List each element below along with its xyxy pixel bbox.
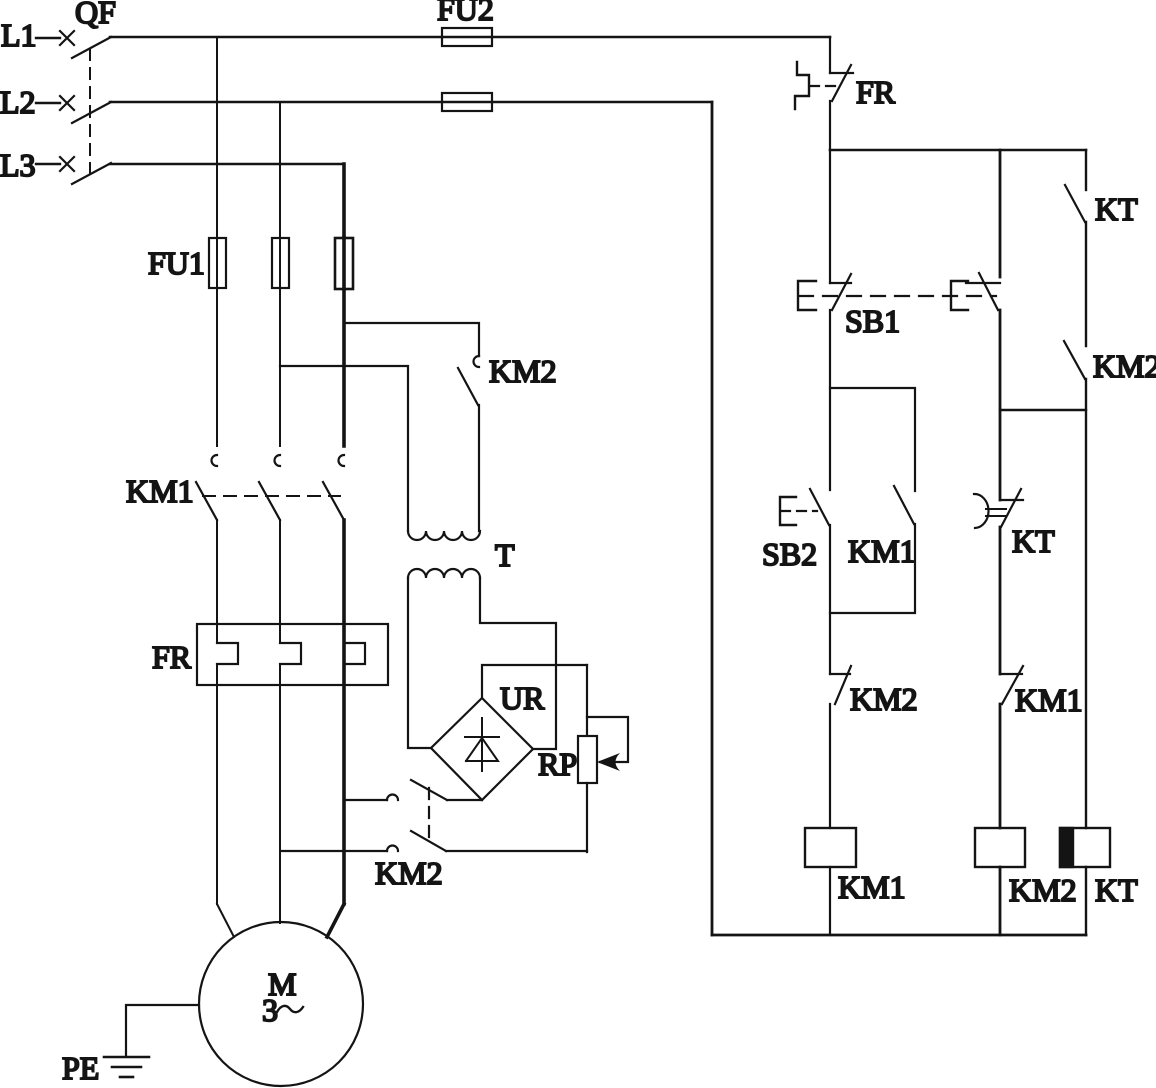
- wire phase V drop: [279, 102, 281, 446]
- wire left branch lower: [829, 525, 831, 674]
- svg-text:KM1: KM1: [126, 473, 194, 509]
- fuse FU1 label: [148, 245, 205, 281]
- svg-text:T: T: [495, 537, 515, 573]
- fuse FU1 pole 3: [335, 238, 353, 289]
- wire KM2 coil to bus: [999, 867, 1002, 935]
- fuse FU1 pole 2: [272, 238, 289, 288]
- wire secondary left lead: [408, 578, 431, 748]
- svg-text:KM2: KM2: [489, 353, 557, 389]
- coil KM2 label: [1009, 872, 1077, 908]
- svg-text:KM1: KM1: [1015, 682, 1083, 718]
- svg-text:FR: FR: [856, 74, 896, 110]
- thermal relay FR heater 3: [344, 643, 365, 664]
- node L1: [1, 17, 37, 53]
- wire middle branch upper: [999, 150, 1002, 277]
- rectifier UR bridge: [431, 698, 533, 800]
- wire phase W mid: [342, 520, 346, 904]
- transformer T primary winding: [408, 531, 480, 540]
- pushbutton SB1 actuator b: [951, 281, 968, 310]
- ground PE label: [62, 1050, 99, 1086]
- thermal relay FR control contact: [830, 65, 853, 101]
- wire KM2 to transformer: [478, 405, 480, 531]
- wire phase U mid: [216, 520, 218, 643]
- breaker QF pole 1 blade: [72, 37, 111, 58]
- svg-text:SB1: SB1: [845, 303, 900, 339]
- breaker QF label: [75, 0, 116, 30]
- svg-text:KM1: KM1: [838, 869, 906, 905]
- fuse FU2 pole 2: [442, 93, 492, 111]
- wire to KM1 coil: [829, 704, 831, 828]
- transformer T label: [495, 537, 515, 573]
- wire branch to KM2 power contact: [344, 323, 479, 356]
- svg-text:SB2: SB2: [762, 536, 817, 572]
- ground symbol: [104, 1057, 149, 1077]
- svg-text:KM2: KM2: [1093, 348, 1156, 384]
- wire right branch upper: [1085, 150, 1087, 190]
- svg-text:UR: UR: [500, 680, 545, 716]
- motor M circle: [199, 922, 363, 1086]
- contactor KM2 brake link: [428, 788, 430, 843]
- fuse FU2 label: [437, 0, 494, 27]
- wire phase U lower: [217, 664, 234, 937]
- wire phase U drop: [216, 37, 218, 446]
- wire middle branch lower: [999, 527, 1002, 674]
- wire to KM2 coil: [999, 704, 1002, 828]
- pushbutton SB1 actuator a: [798, 281, 816, 310]
- svg-text:KT: KT: [1095, 191, 1138, 227]
- motor 3-phase label: [262, 992, 303, 1028]
- contactor KM2 power label: [489, 353, 557, 389]
- timer KT contact label: [1095, 191, 1138, 227]
- wire phase W motor lead: [327, 904, 344, 937]
- breaker QF pole 3 blade: [72, 163, 111, 184]
- contactor KM1 main label: [126, 473, 194, 509]
- svg-text:FR: FR: [152, 639, 192, 675]
- motor M label: [268, 966, 296, 1002]
- coil KT label: [1095, 872, 1138, 908]
- contactor KM2 aux label: [1093, 348, 1156, 384]
- thermal relay FR control label: [856, 74, 896, 110]
- pushbutton SB1 contact a: [830, 274, 851, 310]
- wire phase V mid: [279, 520, 281, 643]
- potentiometer RP body: [578, 665, 597, 852]
- thermal relay FR heater 2: [280, 643, 301, 664]
- wire L2 bus: [110, 101, 712, 104]
- wire L2 stub: [36, 102, 60, 104]
- contactor KM2 power contact: [458, 356, 479, 405]
- rectifier UR label: [500, 680, 545, 716]
- svg-text:L1: L1: [1, 17, 37, 53]
- coil KT: [1060, 828, 1110, 867]
- timer KT contact: [1065, 185, 1085, 222]
- rectifier UR diode: [465, 718, 499, 771]
- contactor KM1 interlock contact: [1000, 666, 1023, 704]
- coil KM1 label: [838, 869, 906, 905]
- pushbutton SB1 link: [799, 295, 996, 297]
- wire control bottom bus: [712, 934, 1086, 937]
- wire middle branch mid: [999, 310, 1002, 500]
- svg-text:FU1: FU1: [148, 245, 205, 281]
- wire bridge top lead: [482, 665, 587, 698]
- wire PE lead: [126, 1005, 199, 1056]
- wire junction bar: [1000, 409, 1086, 411]
- contactor KM1 aux contact: [894, 486, 914, 524]
- wire L3 bus: [110, 163, 344, 166]
- wire left branch middle: [829, 310, 831, 490]
- wire L1 bus: [110, 36, 830, 39]
- wire left branch upper: [829, 150, 831, 283]
- pushbutton SB1 contact b: [966, 273, 1000, 310]
- wire L3 stub: [36, 163, 60, 165]
- svg-text:L3: L3: [0, 147, 36, 183]
- contactor KM2 interlock label: [850, 681, 918, 717]
- wire right branch mid: [1085, 222, 1087, 346]
- contactor KM1 main pole 2: [259, 455, 280, 520]
- svg-text:L2: L2: [0, 84, 36, 120]
- wire KM1 coil to bus: [829, 867, 831, 935]
- contactor KM2 brake contact lower: [281, 831, 587, 851]
- svg-text:KM2: KM2: [850, 681, 918, 717]
- pushbutton SB2 actuator: [780, 497, 817, 525]
- contactor KM1 main pole 1: [196, 455, 217, 520]
- potentiometer RP label: [538, 746, 577, 782]
- breaker QF link: [89, 49, 91, 176]
- wire phase W drop: [342, 164, 346, 446]
- terminal cross L2: [60, 96, 74, 110]
- contactor KM1 main pole 3: [323, 455, 344, 520]
- terminal cross L3: [60, 157, 74, 171]
- thermal relay FR label: [152, 639, 192, 675]
- node L3: [0, 147, 36, 183]
- pushbutton SB2 label: [762, 536, 817, 572]
- pushbutton SB2 contact: [810, 489, 829, 525]
- svg-text:RP: RP: [538, 746, 577, 782]
- wire L1 corner drop: [829, 37, 831, 73]
- svg-text:KT: KT: [1012, 523, 1055, 559]
- fuse FU2 pole 1: [442, 28, 492, 46]
- wire secondary right lead: [480, 578, 556, 749]
- contactor KM2 brake label: [375, 855, 443, 891]
- contactor KM2 interlock contact: [830, 666, 851, 704]
- contactor KM1 interlock label: [1015, 682, 1083, 718]
- svg-text:KM1: KM1: [848, 533, 916, 569]
- wire KT coil to bus: [1085, 867, 1087, 935]
- thermal relay FR heater 1: [217, 643, 238, 664]
- wire control rail upper: [829, 101, 831, 150]
- transformer T secondary winding: [408, 569, 480, 578]
- svg-text:FU2: FU2: [437, 0, 494, 27]
- contactor KM2 brake contact upper: [344, 780, 482, 800]
- contactor KM1 aux label: [848, 533, 916, 569]
- node L2: [0, 84, 36, 120]
- wire control top bus: [830, 149, 1086, 152]
- contactor KM2 aux contact: [1064, 341, 1085, 379]
- wire phase V lower: [279, 664, 281, 923]
- potentiometer RP wiper: [587, 717, 628, 771]
- pushbutton SB1 label: [845, 303, 900, 339]
- svg-text:KM2: KM2: [375, 855, 443, 891]
- wire KM1 aux branch bottom: [830, 524, 915, 613]
- coil KM1: [805, 828, 856, 867]
- wire branch to transformer primary: [280, 366, 408, 531]
- breaker QF pole 2 blade: [72, 102, 111, 123]
- coil KM2: [975, 828, 1025, 867]
- wire L1 stub: [36, 37, 60, 39]
- thermal relay FR actuator: [795, 62, 838, 109]
- svg-text:QF: QF: [75, 0, 116, 30]
- wire KM1 aux branch top: [830, 388, 915, 491]
- contactor KM1 main link: [203, 495, 340, 497]
- timer KT delayed label: [1012, 523, 1055, 559]
- thermal relay FR box: [197, 624, 388, 685]
- timer KT delayed contact: [974, 489, 1023, 528]
- fuse FU1 pole 1: [209, 238, 226, 288]
- wire L2 control rail: [711, 102, 714, 935]
- svg-text:3: 3: [262, 992, 278, 1028]
- svg-text:KT: KT: [1095, 872, 1138, 908]
- svg-text:PE: PE: [62, 1050, 99, 1086]
- terminal cross L1: [60, 31, 74, 45]
- svg-text:KM2: KM2: [1009, 872, 1077, 908]
- wire right branch lower: [1085, 379, 1087, 828]
